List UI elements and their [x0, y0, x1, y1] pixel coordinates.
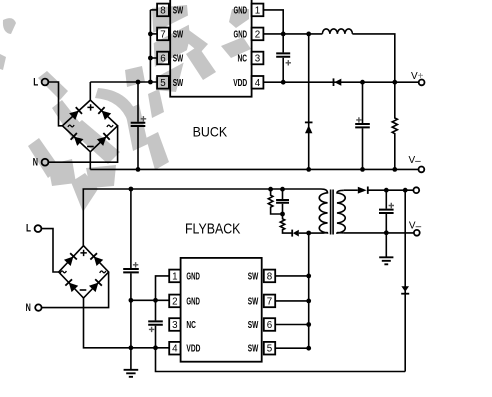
capacitor C7 plus: [389, 203, 394, 208]
diode D2 bar: [305, 121, 313, 123]
svg-text:4: 4: [172, 344, 178, 355]
svg-text:3: 3: [172, 320, 178, 331]
capacitor C3 plus: [356, 117, 361, 122]
capacitor C1 buck input top lead: [137, 82, 139, 122]
BR2 tilde left: [60, 271, 66, 273]
watermark hook right labels: [229, 9, 249, 28]
diode D3 output triangle: [358, 187, 367, 194]
watermark stroke IC diag3: [186, 46, 216, 80]
U1 pin 2 box: [252, 28, 264, 41]
svg-text:GND: GND: [186, 296, 200, 307]
wire: N to bridge right corner: [49, 126, 118, 162]
wire: secondary bottom V- rail: [344, 232, 414, 234]
BR1 tilde right: [107, 125, 113, 127]
terminal V+: [419, 80, 425, 86]
node out-riser: [403, 188, 408, 193]
U2 pin 8 box: [264, 270, 275, 283]
wire: pin1 to pin2 node: [263, 10, 283, 34]
U1 pin 6 box: [157, 52, 169, 65]
watermark stroke below bridge: [70, 120, 120, 164]
svg-text:SW: SW: [173, 29, 184, 40]
wire: pin4 VDD to V+ terminal: [263, 81, 418, 83]
diode D3 bar: [367, 187, 369, 194]
node rail-cap: [136, 80, 141, 85]
U1 pin 4 box: [252, 76, 264, 89]
BR1 diode bottom-left: [71, 133, 84, 146]
BR2 diode bottom-right: [89, 279, 102, 292]
wire: BR1 + output stub: [89, 82, 91, 100]
svg-text:SW: SW: [248, 344, 259, 355]
diode D4 bias triangle: [401, 286, 409, 292]
node rail2-bulkcap: [129, 187, 134, 192]
bridge rectifier BR2 diamond: [59, 246, 109, 298]
wire: L to bridge: [49, 82, 63, 126]
diode D4 bar: [401, 293, 409, 295]
watermark blob below bridge left: [48, 159, 76, 186]
wire: L to bridge2: [42, 229, 59, 272]
BR1 diode top-right: [98, 107, 111, 120]
BR1 diode bottom-right: [97, 133, 110, 146]
BR2 diode top-left: [64, 253, 77, 266]
transformer T1 secondary winding: [337, 190, 345, 233]
wire: pin6 stub: [275, 324, 309, 326]
wire: VDD-node down to bottom return wire: [156, 348, 406, 372]
capacitor C2 bottom lead: [282, 58, 284, 82]
node bus-pin7: [148, 32, 153, 37]
U2 pin 6 box: [264, 318, 275, 331]
BR1 diode top-left: [69, 107, 82, 120]
ground symbol flyback output: [379, 257, 393, 264]
wire: pin2 to inductor: [263, 33, 322, 35]
watermark fat diagonal right: [221, 37, 251, 58]
node bus-pin6: [148, 56, 153, 61]
watermark stroke lower-left: [28, 138, 60, 178]
wire: pin5 stub: [275, 347, 309, 349]
svg-text:SW: SW: [248, 320, 259, 331]
svg-text:8: 8: [267, 271, 273, 282]
svg-text:NC: NC: [186, 320, 196, 331]
node pin4-cap: [281, 80, 286, 85]
wire: pin6 stub: [150, 57, 157, 59]
terminal V- flyback: [414, 230, 420, 236]
diode D2 triangle: [305, 125, 312, 133]
node swbus-pin8: [306, 274, 311, 279]
capacitor C1 plates: [131, 123, 146, 126]
capacitor C4 plates: [123, 269, 139, 272]
svg-text:L: L: [33, 77, 38, 89]
svg-text:V–: V–: [409, 220, 422, 232]
node rail-bus: [148, 80, 153, 85]
capacitor C3 bottom lead: [362, 128, 364, 169]
svg-text:2: 2: [172, 296, 177, 307]
bridge rectifier BR1 diamond: [62, 100, 117, 152]
capacitor C6 plates: [276, 200, 289, 203]
node vddline-cap: [153, 345, 158, 350]
svg-text:7: 7: [267, 296, 272, 307]
svg-text:L: L: [26, 223, 31, 235]
node sw-primary: [306, 231, 311, 236]
svg-text:5: 5: [160, 78, 166, 89]
node bottom-outcap: [360, 167, 365, 172]
U1 pin 8 box: [157, 4, 169, 17]
diode D1 triangle: [334, 79, 341, 86]
watermark band behind pins: [152, 5, 190, 92]
watermark mark left edge: [125, 66, 145, 87]
svg-text:NC: NC: [238, 54, 248, 65]
svg-text:GND: GND: [234, 5, 248, 16]
watermark tendril right: [184, 28, 208, 53]
capacitor C7 bottom lead: [385, 214, 387, 233]
capacitor C5 plates: [148, 321, 163, 324]
wire: secondary top to D3: [344, 189, 358, 191]
svg-text:V–: V–: [409, 155, 422, 167]
diode D5 triangle: [293, 230, 299, 237]
terminal L input buck: [42, 79, 49, 86]
terminal L input flyback: [35, 225, 42, 232]
wire: pin8 stub: [275, 275, 309, 277]
BR2 diode top-right: [90, 253, 103, 266]
resistor R1 load: [392, 82, 397, 169]
svg-text:SW: SW: [248, 271, 259, 282]
wire: pin7 stub: [275, 300, 309, 302]
capacitor C7 plates: [379, 210, 394, 213]
wire: pin8 stub: [150, 9, 157, 11]
capacitor C3 plates: [355, 124, 370, 127]
capacitor C4 bulk top lead: [130, 189, 132, 268]
wire: SW bus flyback: [308, 233, 310, 348]
wire: left SW bus vertical: [149, 10, 151, 82]
wire: D5 to SW node: [299, 232, 309, 234]
BR2 diode bottom-left: [65, 279, 78, 292]
node pin2-freewheel: [306, 32, 311, 37]
capacitor C4 plus: [133, 262, 138, 267]
resistor R3 series clamp: [280, 214, 292, 233]
wire: buck bottom rail: [90, 168, 418, 170]
U1 pin 3 box: [252, 52, 264, 65]
svg-text:7: 7: [160, 29, 165, 40]
svg-text:2: 2: [255, 29, 260, 40]
svg-text:FLYBACK: FLYBACK: [185, 222, 241, 238]
svg-text:N: N: [33, 157, 38, 169]
node pin2-cap: [281, 32, 286, 37]
U1 pin 1 box: [252, 4, 264, 17]
diode D5 clamp bar: [291, 230, 293, 237]
node swbus-pin7: [306, 299, 311, 304]
capacitor C6 bottom lead: [282, 204, 284, 214]
op-IC U2 body: [181, 258, 262, 362]
watermark edge tick: [0, 54, 6, 70]
watermark stroke to bottom rail: [146, 132, 169, 170]
svg-text:6: 6: [160, 54, 166, 65]
capacitor C2 VDD bypass top lead: [282, 34, 284, 53]
svg-text:N: N: [26, 302, 31, 314]
node gndbus-pin2line: [129, 298, 134, 303]
svg-text:V+: V+: [411, 71, 424, 82]
node bottom-freewheel: [306, 167, 311, 172]
wire: D3 to output terminal: [368, 189, 413, 191]
U2 pin 3 box: [169, 318, 180, 331]
svg-text:SW: SW: [248, 296, 259, 307]
watermark curl top-left: [3, 18, 16, 34]
terminal V- buck: [419, 167, 425, 173]
capacitor C2 plates: [276, 53, 290, 56]
diode D2 freewheel wire: [308, 34, 310, 170]
node out-cap: [384, 188, 389, 193]
svg-text:BUCK: BUCK: [193, 124, 228, 139]
capacitor C5 VDD bypass top lead: [155, 300, 157, 320]
node swbus-pin6: [306, 322, 311, 327]
svg-text:VDD: VDD: [186, 344, 200, 355]
capacitor C1 plus: [141, 116, 147, 122]
svg-text:3: 3: [255, 54, 261, 65]
capacitor C3 output top lead: [362, 82, 364, 123]
resistor R2 clamp: [268, 189, 282, 214]
node Vplus-cap: [360, 80, 365, 85]
node clamp-bottom: [280, 212, 285, 217]
svg-text:GND: GND: [186, 271, 200, 282]
diode D1 series bar: [333, 78, 335, 86]
node pin2line-cap: [153, 298, 158, 303]
capacitor C7 output top lead: [385, 190, 387, 208]
U2 pin 1 box: [169, 270, 180, 283]
svg-text:6: 6: [267, 320, 273, 331]
svg-text:SW: SW: [173, 78, 184, 89]
capacitor C4 bottom lead: [130, 273, 132, 369]
watermark white slash 2: [149, 47, 196, 79]
svg-text:8: 8: [160, 5, 166, 16]
watermark stroke bridge-left: [52, 100, 84, 140]
watermark white slash 1: [149, 14, 194, 44]
svg-text:VDD: VDD: [233, 78, 247, 89]
capacitor C5 bottom lead: [155, 326, 157, 348]
svg-text:GND: GND: [234, 29, 248, 40]
node vddline-groundbus: [129, 345, 134, 350]
capacitor C1 bottom lead: [137, 127, 139, 169]
U2 pin 4 box: [169, 342, 180, 355]
node bottom-cap: [136, 167, 141, 172]
node Vplus-res: [392, 80, 397, 85]
wire: BR2 minus down and right to VDD line: [84, 298, 170, 348]
op-IC U1 body: [170, 0, 251, 97]
U2 pin 7 box: [264, 295, 275, 308]
node rail2-clampR: [268, 187, 273, 192]
wire: N to bridge2 right corner: [42, 272, 109, 308]
wire: right return riser: [404, 190, 406, 371]
capacitor C5 plus: [149, 327, 154, 332]
BR2 tilde right: [100, 271, 106, 273]
transformer T1 primary winding: [309, 189, 328, 233]
watermark stroke behind cap: [125, 104, 148, 151]
wire: pin7 stub: [150, 33, 157, 35]
BR2 plus mark: [80, 250, 86, 256]
svg-text:4: 4: [255, 78, 261, 89]
terminal output flyback: [413, 187, 419, 193]
svg-text:5: 5: [267, 344, 273, 355]
node swbus-pin5: [306, 346, 311, 351]
watermark stroke flyback corner: [71, 173, 98, 212]
node bottom-res: [392, 167, 397, 172]
wire: rectified + rail to pin5: [90, 81, 157, 83]
watermark stroke below pin5: [148, 89, 164, 118]
BR1 minus mark: [87, 146, 94, 148]
BR1 plus mark: [87, 104, 93, 110]
U2 pin 2 box: [169, 295, 180, 308]
BR1 tilde left: [68, 125, 74, 127]
node vminus-cap: [384, 230, 389, 235]
transformer T1 core: [331, 190, 334, 235]
wire: pin2 GND line: [131, 299, 169, 301]
terminal N input flyback: [35, 304, 41, 310]
capacitor C6 clamp top lead: [282, 189, 284, 199]
capacitor C2 plus: [286, 60, 291, 65]
node rail2-clampC: [280, 187, 285, 192]
wire: flyback + rail: [83, 189, 321, 246]
U2 pin 5 box: [264, 342, 275, 355]
watermark stroke under L: [38, 71, 68, 100]
terminal N input buck: [42, 159, 49, 166]
watermark arc bridge-right: [95, 88, 138, 122]
svg-text:1: 1: [255, 5, 260, 16]
svg-text:SW: SW: [173, 5, 184, 16]
wire: inductor to V+ node: [352, 34, 394, 82]
BR2 minus mark: [80, 289, 87, 291]
wire: BR1 - output stub: [89, 152, 91, 170]
wire: V- to ground stem: [385, 233, 387, 257]
ground symbol flyback input: [124, 370, 139, 377]
wire: pin1 to pin2 node flyback: [156, 276, 170, 300]
svg-text:1: 1: [172, 271, 177, 282]
U1 pin 7 box: [157, 28, 169, 41]
U1 pin 5 box: [157, 76, 169, 89]
watermark blob below bridge right: [86, 165, 116, 188]
inductor L1: [322, 29, 352, 34]
svg-text:SW: SW: [173, 54, 184, 65]
